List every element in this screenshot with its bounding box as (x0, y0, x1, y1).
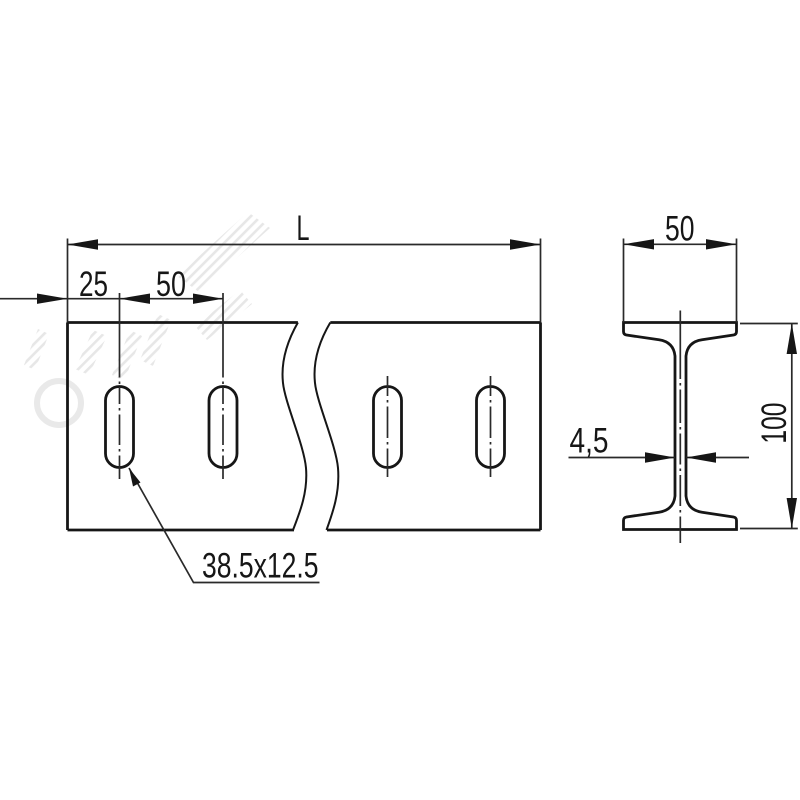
dim 100 extension bottom (740, 528, 798, 530)
dim 4,5 line left (569, 457, 676, 459)
dim 50 (section) line (624, 243, 737, 245)
beam bottom edge right segment (327, 529, 541, 532)
dim L arrow right (510, 239, 541, 249)
break line right S-curve (315, 323, 339, 531)
slot 4 (477, 387, 505, 468)
dim 4,5 arrow right (686, 452, 716, 462)
dim 25/50 line (0, 298, 223, 300)
dim 50 (section) extension left (623, 239, 625, 323)
dim 50 arrow left (120, 294, 151, 304)
slot 3 centerline (387, 376, 389, 477)
svg-text:50: 50 (156, 264, 186, 304)
dim L extension line left (67, 239, 69, 323)
slot 3 (374, 387, 402, 468)
watermark ring (37, 381, 81, 425)
dim 100 line (791, 324, 793, 529)
dim 4,5 arrow left (645, 452, 675, 462)
slot 4 centerline (490, 376, 492, 477)
svg-text:25: 25 (79, 264, 108, 304)
beam right edge (539, 323, 542, 531)
dim L extension line right (540, 239, 542, 323)
leader line for slot size (129, 468, 320, 583)
slot 1 centerline (119, 293, 121, 479)
dim 100 arrow top (787, 324, 797, 355)
watermark hatch big letter lower band (195, 290, 252, 340)
dim 50 (section) extension right (736, 239, 738, 323)
watermark hatch piece 2 (140, 314, 171, 366)
beam top edge right segment (330, 321, 540, 324)
dim L line (68, 244, 541, 246)
slot 2 (209, 387, 237, 468)
slot 2 centerline (222, 293, 224, 479)
dim 100 extension top (740, 323, 798, 325)
beam bottom edge left segment (68, 529, 295, 532)
watermark hatch piece 1 (75, 330, 107, 375)
svg-text:38.5x12.5: 38.5x12.5 (202, 546, 319, 586)
watermark hatch piece 2b (112, 330, 142, 381)
dim 50 arrow right (193, 294, 223, 304)
svg-text:50: 50 (665, 209, 695, 249)
slot 1 (106, 387, 134, 468)
I-beam outline (624, 323, 737, 530)
dim 25 arrow at left edge (37, 294, 68, 304)
dim 50 (section) arrow right (706, 239, 737, 249)
svg-text:L: L (297, 208, 310, 248)
break line left S-curve (283, 323, 307, 531)
svg-text:4,5: 4,5 (570, 421, 609, 461)
I-beam centerline (679, 311, 681, 544)
leader arrow (129, 468, 141, 487)
svg-text:100: 100 (754, 403, 794, 444)
beam outline left edge (66, 323, 69, 531)
dim 100 arrow bottom (787, 498, 797, 529)
beam top edge left segment (68, 321, 298, 324)
watermark hatch piece 3 (24, 329, 49, 370)
dim 50 (section) arrow left (624, 239, 655, 249)
watermark hatch big letter upper band (177, 212, 270, 292)
dim 4,5 line right (686, 457, 749, 459)
dim L arrow left (68, 239, 99, 249)
